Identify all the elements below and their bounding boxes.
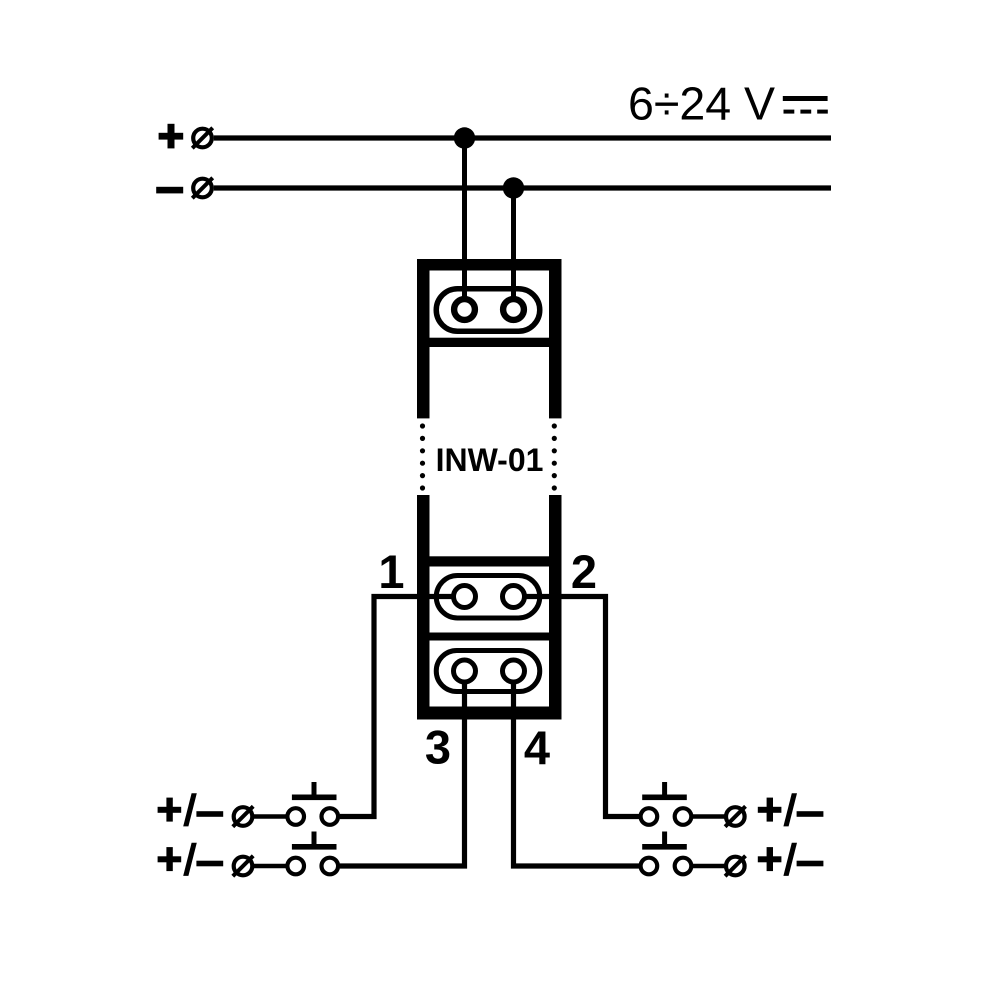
screw terminal right row 2 xyxy=(725,856,745,876)
device left side bar lower xyxy=(417,495,430,720)
label +/- left row 2 xyxy=(158,843,224,876)
pushbutton S2 (left row 2) xyxy=(287,832,338,875)
output block top bar xyxy=(417,556,562,566)
pushbutton S3 (right row 1) xyxy=(641,782,692,825)
wire button to screw right row 2 xyxy=(691,864,725,869)
device INW-01 body: head top bar xyxy=(417,259,562,271)
wire - rail xyxy=(214,185,831,190)
pushbutton S1 (left row 1) xyxy=(287,782,338,825)
svg-text:1: 1 xyxy=(378,545,404,598)
dotted break left xyxy=(420,423,425,490)
svg-text:4: 4 xyxy=(524,721,550,774)
terminal ring 3 xyxy=(454,660,476,682)
pushbutton S4 (right row 2) xyxy=(641,832,692,875)
screw terminal right row 1 xyxy=(725,806,745,826)
plus label (+ supply) xyxy=(159,124,184,149)
junction on - rail xyxy=(503,177,524,198)
wire terminal 3 to left button 2 xyxy=(340,671,465,866)
svg-text:3: 3 xyxy=(425,721,451,774)
device left side bar upper xyxy=(417,259,430,418)
svg-text:6÷24 V: 6÷24 V xyxy=(628,78,775,130)
wire screw to button left row 2 xyxy=(254,864,288,869)
top terminal stadium xyxy=(436,289,540,332)
label +/- right row 1 xyxy=(758,793,824,826)
lower terminal stadium (3,4) xyxy=(436,651,540,692)
junction on + rail xyxy=(454,127,475,148)
terminal ring 1 xyxy=(454,586,476,608)
svg-text:INW-01: INW-01 xyxy=(436,442,544,478)
wire terminal 1 to left button 1 xyxy=(340,597,465,817)
screw terminal left row 2 xyxy=(233,856,253,876)
device head bottom bar xyxy=(417,338,562,347)
svg-text:2: 2 xyxy=(571,545,597,598)
terminal ring 4 xyxy=(503,660,525,682)
dotted break right xyxy=(552,423,557,490)
device right side bar upper xyxy=(549,259,562,418)
wire terminal 4 to right button 2 xyxy=(514,671,640,866)
DC symbol xyxy=(783,96,828,114)
top terminal ring B xyxy=(503,299,524,320)
screw terminal - supply xyxy=(192,178,212,198)
device right side bar lower xyxy=(549,495,562,720)
wire from - rail to device terminal B xyxy=(511,188,516,310)
label +/- left row 1 xyxy=(158,793,224,826)
screw terminal + supply xyxy=(192,128,212,148)
wire + rail xyxy=(214,135,831,140)
top terminal ring A xyxy=(454,299,475,320)
output block divider bar xyxy=(417,633,562,641)
terminal ring 2 xyxy=(503,586,525,608)
minus label (- supply) xyxy=(156,187,183,194)
wire button to screw right row 1 xyxy=(691,814,725,819)
wire screw to button left row 1 xyxy=(254,814,288,819)
device bottom bar xyxy=(417,707,562,720)
wire from + rail to device terminal A xyxy=(462,138,467,310)
middle terminal stadium (1,2) xyxy=(436,576,540,619)
label +/- right row 2 xyxy=(758,843,824,876)
wire terminal 2 to right button 1 xyxy=(514,597,640,817)
screw terminal left row 1 xyxy=(233,806,253,826)
